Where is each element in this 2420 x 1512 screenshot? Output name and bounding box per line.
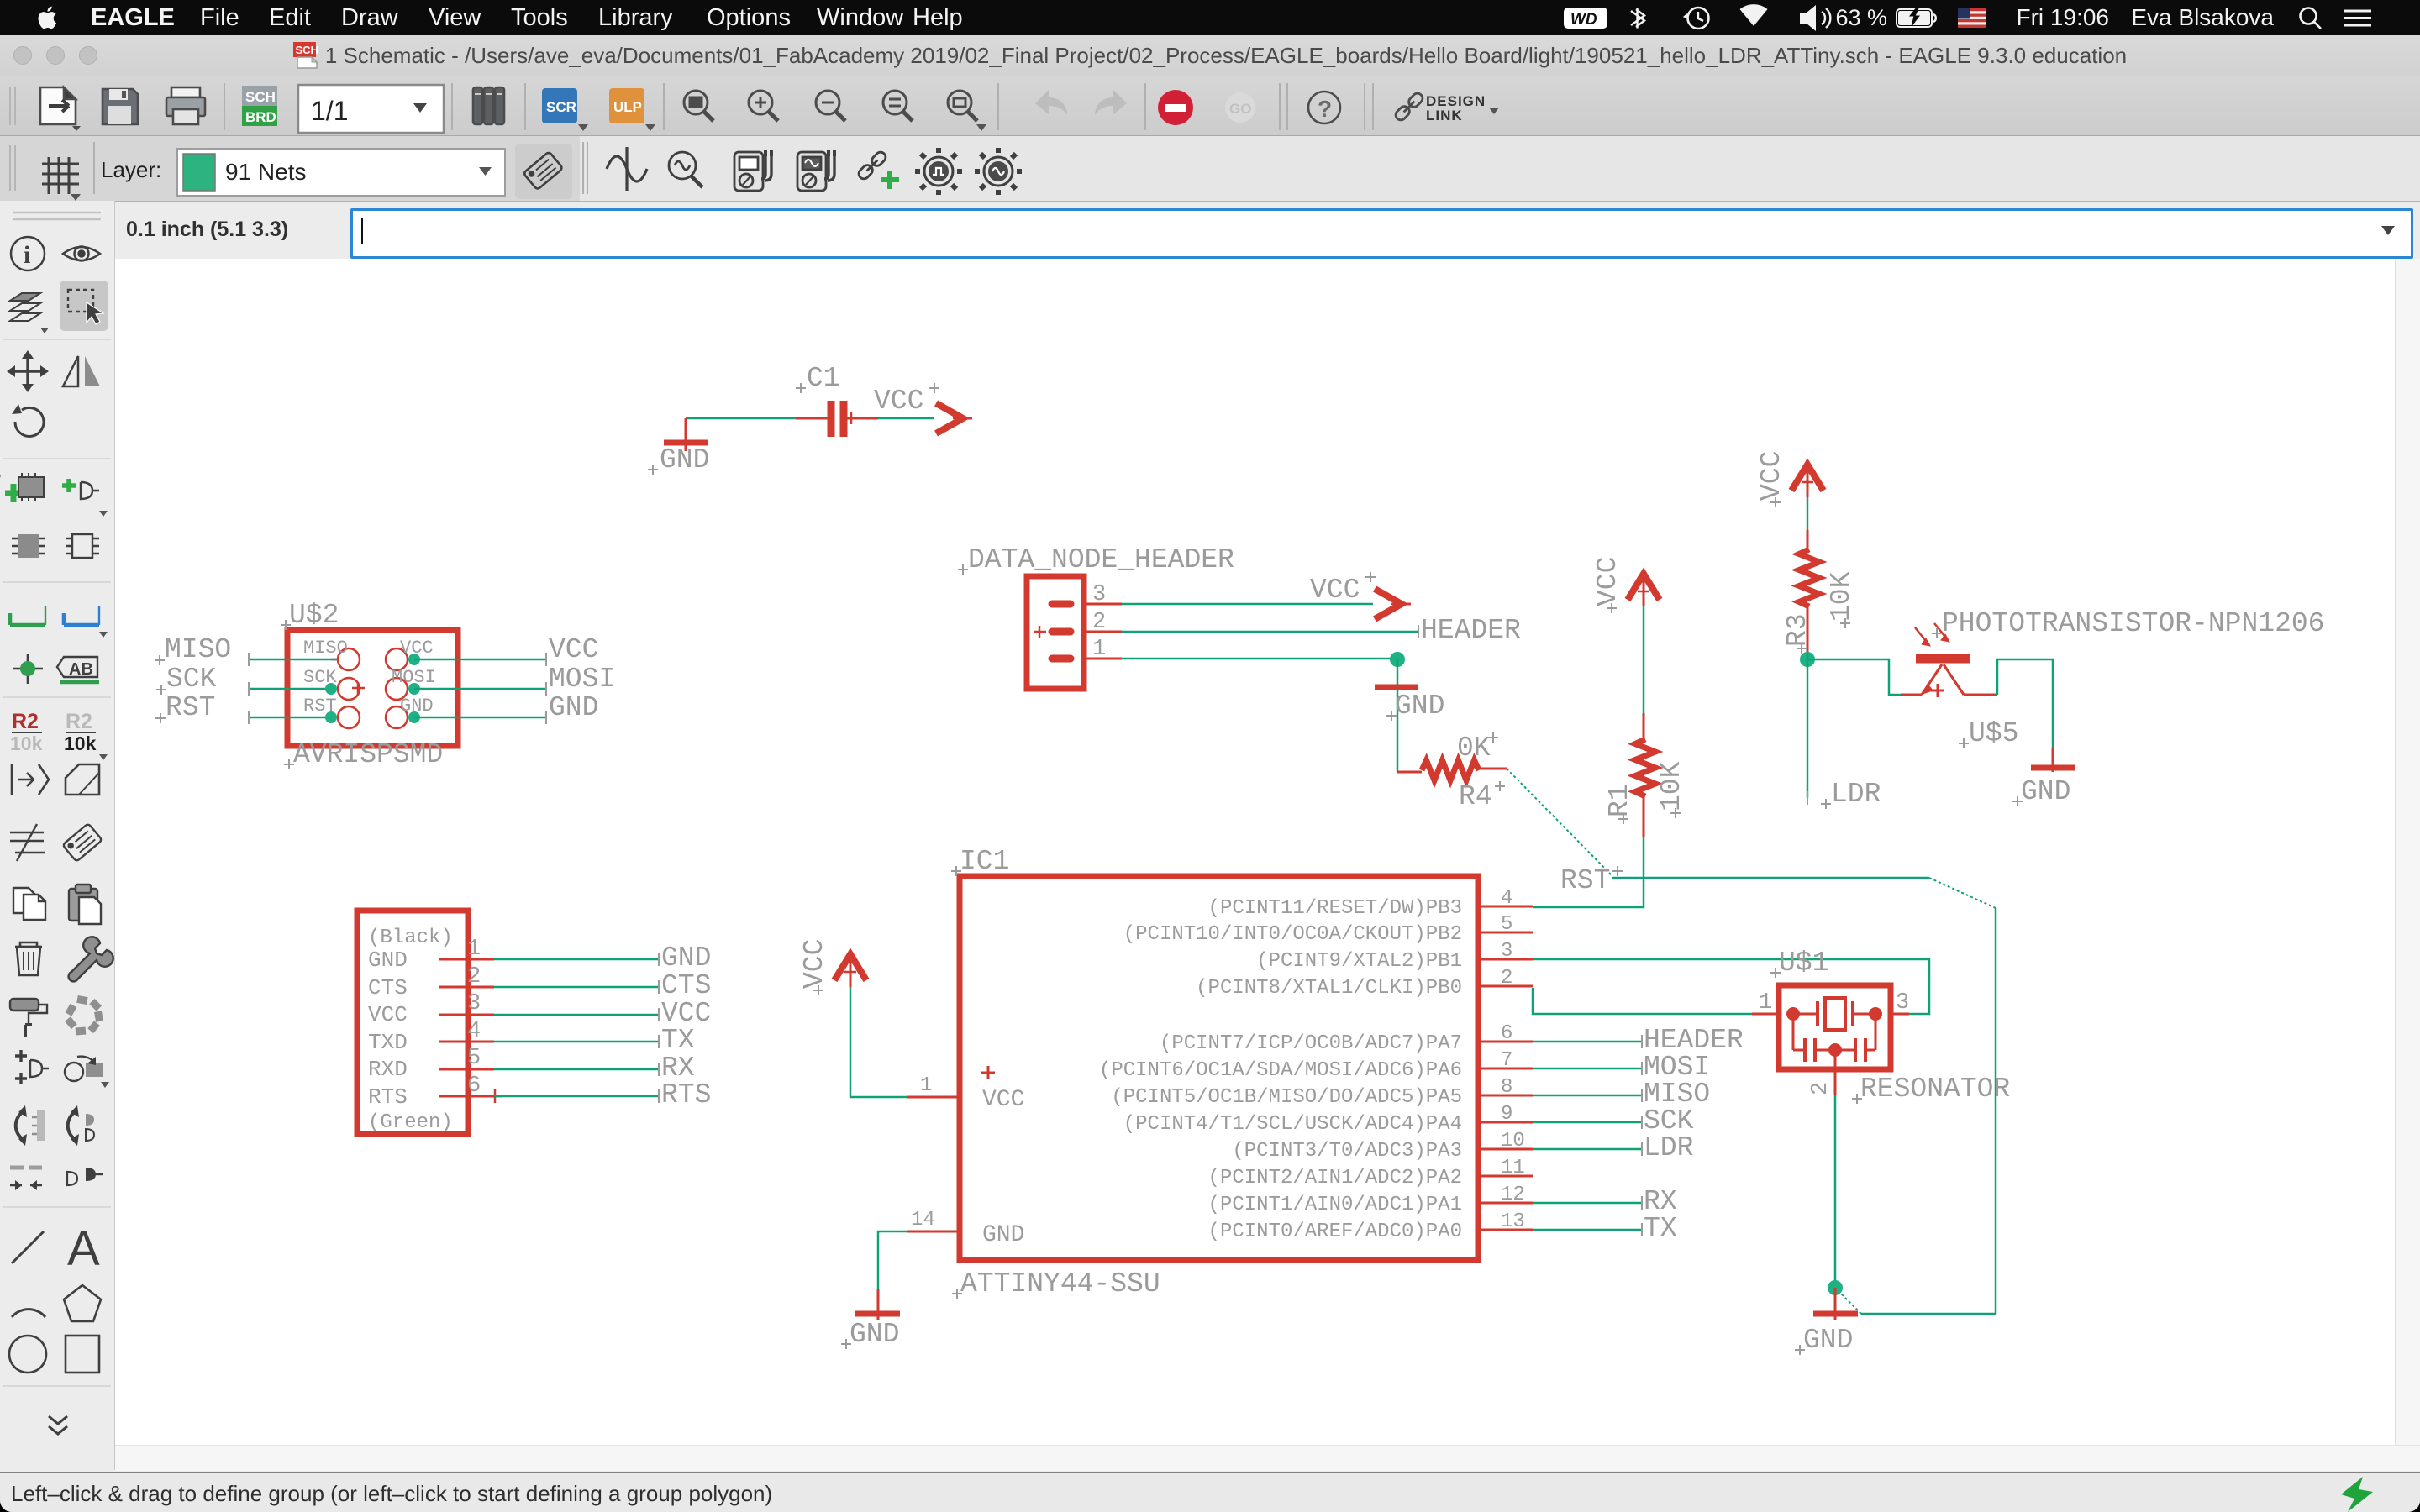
pinswap part tool <box>12 534 45 558</box>
wire pin12 RX <box>1533 1196 1642 1210</box>
svg-text:Layer:: Layer: <box>101 157 161 182</box>
svg-text:(PCINT2/AIN1/ADC2)PA2: (PCINT2/AIN1/ADC2)PA2 <box>1208 1167 1462 1189</box>
ground symbol (U$5) <box>2031 748 2075 772</box>
svg-text:AVRISPSMD: AVRISPSMD <box>293 739 443 770</box>
svg-text:0K: 0K <box>1457 732 1491 764</box>
phototransistor U$5 <box>1901 623 1997 697</box>
label VCC (U$2 right) <box>549 634 598 665</box>
svg-text:GND: GND <box>1803 1325 1853 1356</box>
mirror tool <box>63 356 100 386</box>
SCR button <box>542 88 588 131</box>
svg-text:C1: C1 <box>807 363 840 394</box>
label VCC (R3) <box>1756 451 1787 507</box>
label MISO (IC1) <box>1644 1079 1710 1110</box>
wire FTDI TX <box>494 1035 659 1048</box>
wire IC1 pin14 to GND <box>878 1231 907 1289</box>
resonator pin numbers <box>1759 990 1909 1095</box>
label GND (C1) <box>648 444 709 475</box>
junction dot R3 <box>1800 652 1815 667</box>
zoom in <box>749 91 778 121</box>
wire bottom horizontal <box>1861 1313 1996 1315</box>
svg-text:(PCINT10/INT0/OC0A/CKOUT)PB2: (PCINT10/INT0/OC0A/CKOUT)PB2 <box>1123 923 1462 946</box>
wire U$2 MOSI right <box>414 682 546 696</box>
info tool <box>11 237 45 270</box>
label R1 <box>1604 784 1635 824</box>
svg-text:BRD: BRD <box>245 109 276 125</box>
svg-text:A: A <box>67 1221 100 1276</box>
zoom redraw <box>948 91 986 131</box>
FTDI pin numbers <box>467 937 481 1099</box>
change tool <box>65 1057 109 1088</box>
ULP button <box>609 88 655 131</box>
wire pin8 MISO <box>1533 1089 1642 1102</box>
svg-text:GND: GND <box>368 948 408 973</box>
IC1 ATTINY44 box <box>960 876 1478 1260</box>
gear chip tool <box>915 148 962 195</box>
wire pin10 LDR <box>1533 1142 1642 1156</box>
paste tool <box>69 885 101 924</box>
label R4 <box>1459 781 1505 812</box>
svg-text:7: 7 <box>1501 1049 1512 1072</box>
label SCK (IC1) <box>1644 1105 1694 1137</box>
wire SCK to U$2 <box>249 682 331 696</box>
capacitor C1 <box>796 401 878 437</box>
label RESONATOR <box>1852 1074 2010 1105</box>
label CTS (FTDI) <box>661 970 711 1001</box>
toolbar chevron <box>49 1416 67 1434</box>
wire junction down through GND <box>1397 659 1399 772</box>
zoom fit <box>684 91 713 121</box>
svg-text:R4: R4 <box>1459 781 1492 812</box>
new/open icon <box>40 87 81 131</box>
svg-text:14: 14 <box>911 1209 935 1231</box>
svg-text:10K: 10K <box>1826 571 1857 622</box>
resistor R4 <box>1397 760 1507 780</box>
wire pin2 to resonator pin1 <box>1533 988 1752 1014</box>
svg-text:IC1: IC1 <box>960 846 1009 877</box>
svg-text:MISO: MISO <box>303 638 348 659</box>
SCH/BRD icon <box>242 86 277 126</box>
svg-text:ULP: ULP <box>613 99 642 115</box>
svg-text:3: 3 <box>467 991 481 1016</box>
label RST (left) <box>155 692 215 723</box>
wire R3 junction to phototransistor <box>1807 659 1901 695</box>
undo arrow <box>1035 90 1067 115</box>
junction dots U$2 <box>325 654 420 723</box>
macOS menu bar <box>0 0 2420 35</box>
label MOSI (IC1) <box>1644 1052 1710 1083</box>
add gate tool <box>62 479 108 517</box>
name tool <box>10 710 43 754</box>
go button <box>1225 92 1255 123</box>
svg-text:DATA_NODE_HEADER: DATA_NODE_HEADER <box>968 544 1234 575</box>
label ATTINY44-SSU <box>952 1268 1160 1299</box>
smash tool <box>12 764 49 795</box>
power VCC arrow (R1) <box>1628 574 1660 606</box>
FTDI internal labels <box>368 927 453 1134</box>
svg-text:SCK: SCK <box>166 664 217 695</box>
resonator U$1 box <box>1779 985 1891 1069</box>
label tool <box>57 657 99 682</box>
svg-text:6: 6 <box>1501 1022 1512 1045</box>
oscilloscope tool <box>797 150 836 191</box>
FTDI pin stubs <box>439 959 502 1103</box>
svg-text:63 %: 63 % <box>1835 5 1887 30</box>
wire pin6 HEADER <box>1533 1035 1642 1048</box>
svg-text:i: i <box>24 241 30 269</box>
label C1 <box>796 363 840 394</box>
sine tool <box>607 147 647 191</box>
power VCC arrow (R3) <box>1791 465 1823 497</box>
svg-text:10: 10 <box>1501 1130 1525 1152</box>
copy tool <box>13 888 45 920</box>
svg-text:(PCINT9/XTAL2)PB1: (PCINT9/XTAL2)PB1 <box>1256 950 1462 973</box>
split tool <box>10 824 45 861</box>
svg-text:11: 11 <box>1501 1157 1525 1179</box>
svg-text:1/1: 1/1 <box>311 96 348 126</box>
svg-text:(PCINT0/AREF/ADC0)PA0: (PCINT0/AREF/ADC0)PA0 <box>1208 1221 1462 1243</box>
voltmeter tool <box>734 150 773 191</box>
wire pin1 to junction <box>1122 658 1397 660</box>
power VCC arrow (DATA_NODE) <box>1375 589 1411 619</box>
label GND (IC1) <box>841 1319 899 1350</box>
svg-text:1: 1 <box>1759 990 1772 1016</box>
wire C1 to VCC arrow <box>878 417 934 420</box>
svg-text:AB: AB <box>69 660 93 679</box>
svg-text:(PCINT8/XTAL1/CLKI)PB0: (PCINT8/XTAL1/CLKI)PB0 <box>1196 977 1462 1000</box>
svg-text:RXD: RXD <box>368 1057 408 1082</box>
replace part tool <box>66 534 99 558</box>
svg-text:10k: 10k <box>64 732 97 754</box>
svg-text:RTS: RTS <box>661 1079 711 1110</box>
label 0K <box>1457 732 1498 764</box>
svg-text:U$2: U$2 <box>289 600 339 631</box>
wire FTDI RX <box>494 1063 659 1076</box>
wire pin13 TX <box>1533 1223 1642 1236</box>
svg-text:R2: R2 <box>12 710 39 733</box>
wire long vertical right <box>1995 908 1997 1314</box>
grid icon <box>42 157 81 201</box>
wire pin4 RST net <box>1612 877 1929 879</box>
label HEADER (DATA_NODE) <box>1421 615 1521 646</box>
label RX (FTDI) <box>661 1053 695 1084</box>
svg-text:VCC: VCC <box>368 1002 408 1027</box>
label GND (FTDI) <box>661 942 711 974</box>
svg-text:TX: TX <box>1644 1213 1677 1244</box>
svg-text:Eva Blsakova: Eva Blsakova <box>2131 4 2274 30</box>
label R3 <box>1782 613 1813 654</box>
svg-text:PHOTOTRANSISTOR-NPN1206: PHOTOTRANSISTOR-NPN1206 <box>1942 608 2324 639</box>
zoom out <box>816 91 845 121</box>
label GND (U$5) <box>2012 776 2070 807</box>
label DATA_NODE_HEADER <box>958 544 1234 575</box>
redo arrow <box>1095 90 1127 115</box>
svg-text:R2: R2 <box>66 710 92 733</box>
wire GND to C1 <box>686 417 796 420</box>
circle tool <box>9 1336 46 1373</box>
label TX (FTDI) <box>661 1025 695 1056</box>
wire phototransistor to GND <box>1997 659 2053 748</box>
wire pin9 SCK <box>1533 1116 1642 1129</box>
gateswap tool <box>68 1105 94 1146</box>
IC1 right pin stubs <box>1478 906 1533 1230</box>
value tool <box>64 710 108 760</box>
pinswap tool <box>16 1105 45 1146</box>
label LDR <box>1821 779 1881 810</box>
wire RST to U$2 <box>249 711 331 724</box>
svg-text:2: 2 <box>1808 1082 1833 1095</box>
svg-text:VCC: VCC <box>1756 451 1787 501</box>
wire pin2 HEADER <box>1122 625 1418 638</box>
svg-text:CTS: CTS <box>368 975 408 1000</box>
stop button <box>1158 90 1193 125</box>
connector DATA_NODE_HEADER box <box>1027 576 1084 689</box>
svg-text:(PCINT4/T1/SCL/USCK/ADC4)PA4: (PCINT4/T1/SCL/USCK/ADC4)PA4 <box>1123 1113 1462 1136</box>
wire pin7 MOSI <box>1533 1062 1642 1075</box>
wire pin3 to VCC <box>1122 603 1373 606</box>
label MOSI (U$2 right) <box>549 664 615 695</box>
connector U$2 AVRISPSMD box <box>287 630 458 746</box>
svg-text:5: 5 <box>467 1046 481 1071</box>
svg-text:WD: WD <box>1570 11 1597 29</box>
svg-text:RST: RST <box>166 692 215 723</box>
invoke tool <box>67 1168 103 1185</box>
wire VCC to R3 <box>1807 497 1809 549</box>
help button <box>1308 92 1340 123</box>
svg-text:GND: GND <box>850 1319 899 1350</box>
svg-text:(PCINT7/ICP/OC0B/ADC7)PA7: (PCINT7/ICP/OC0B/ADC7)PA7 <box>1160 1032 1462 1055</box>
zoom select <box>883 91 913 121</box>
line draw tool <box>12 1231 44 1263</box>
wire R4 diagonal to RST <box>1507 769 1612 876</box>
junction tool <box>13 654 43 684</box>
svg-text:(PCINT5/OC1B/MISO/DO/ADC5)PA5: (PCINT5/OC1B/MISO/DO/ADC5)PA5 <box>1111 1086 1462 1109</box>
save icon <box>103 89 138 124</box>
label RST <box>1560 865 1623 896</box>
svg-text:3: 3 <box>1896 990 1909 1016</box>
svg-text:8: 8 <box>1501 1076 1512 1099</box>
svg-text:R3: R3 <box>1782 613 1813 647</box>
label AVRISPSMD <box>284 739 443 770</box>
power VCC arrow (right) <box>936 403 972 433</box>
junction dot pin1 <box>1390 652 1405 667</box>
svg-text:GND: GND <box>661 942 711 974</box>
svg-text:TX: TX <box>661 1025 695 1056</box>
ground symbol (IC1) <box>855 1289 900 1320</box>
wire FTDI CTS <box>494 980 659 994</box>
svg-text:?: ? <box>1318 96 1332 122</box>
svg-text:LDR: LDR <box>1831 779 1881 810</box>
wire R3 junction to LDR end <box>1807 653 1809 805</box>
wire VCC to R1 <box>1643 606 1645 713</box>
wire FTDI GND <box>494 953 659 966</box>
svg-text:GND: GND <box>1395 690 1444 722</box>
svg-text:U$5: U$5 <box>1969 718 2018 749</box>
wire resonator pin2 down <box>1834 1095 1837 1288</box>
split wire tool <box>10 1168 42 1190</box>
svg-text:(PCINT6/OC1A/SDA/MOSI/ADC6)PA6: (PCINT6/OC1A/SDA/MOSI/ADC6)PA6 <box>1099 1059 1462 1082</box>
svg-text:U$1: U$1 <box>1779 948 1828 979</box>
print icon <box>166 87 205 124</box>
ground symbol at C1 <box>664 418 708 451</box>
svg-text:GND: GND <box>2021 776 2070 807</box>
probe tool <box>669 152 702 187</box>
wire U$2 VCC right <box>414 653 546 666</box>
svg-text:VCC: VCC <box>874 386 923 417</box>
svg-text:9: 9 <box>1501 1103 1512 1126</box>
wire FTDI VCC <box>494 1008 659 1021</box>
design link <box>1394 92 1499 123</box>
svg-text:VCC: VCC <box>1592 557 1623 606</box>
label GND (resonator) <box>1795 1325 1853 1356</box>
label U$5 <box>1959 718 2018 749</box>
svg-text:HEADER: HEADER <box>1421 615 1521 646</box>
wire R1 down to pin4 <box>1533 837 1644 907</box>
svg-text:R1: R1 <box>1604 784 1635 817</box>
wire pin3 to resonator <box>1533 959 1929 1014</box>
svg-text:LINK: LINK <box>1426 108 1463 123</box>
svg-text:(PCINT3/T0/ADC3)PA3: (PCINT3/T0/ADC3)PA3 <box>1232 1140 1462 1163</box>
svg-text:(Black): (Black) <box>368 927 453 949</box>
label U$2 <box>281 600 339 631</box>
svg-text:LDR: LDR <box>1644 1132 1693 1163</box>
group dots tool <box>65 995 103 1035</box>
arc tool <box>12 1310 45 1317</box>
wire U$2 GND right <box>414 711 546 724</box>
svg-text:GO: GO <box>1229 101 1251 117</box>
svg-text:5: 5 <box>1501 913 1512 936</box>
label IC1 <box>951 846 1009 877</box>
svg-text:4: 4 <box>1501 887 1512 910</box>
text tool <box>67 1221 100 1276</box>
svg-text:(PCINT11/RESET/DW)PB3: (PCINT11/RESET/DW)PB3 <box>1208 897 1462 920</box>
svg-text:Fri 19:06: Fri 19:06 <box>2017 4 2110 30</box>
svg-text:13: 13 <box>1501 1210 1525 1233</box>
label RTS (FTDI) <box>661 1079 711 1110</box>
svg-text:12: 12 <box>1501 1184 1525 1206</box>
label HEADER (IC1) <box>1644 1025 1744 1056</box>
change gate tool <box>15 1050 49 1084</box>
design link add tool <box>857 150 899 189</box>
IC1 left pin stubs <box>907 1097 960 1231</box>
U$2 pin pads <box>331 648 414 728</box>
svg-text:VCC: VCC <box>982 1087 1024 1113</box>
group/select tool (active) <box>60 281 108 331</box>
svg-text:CTS: CTS <box>661 970 711 1001</box>
svg-text:MOSI: MOSI <box>549 664 615 695</box>
svg-text:3: 3 <box>1501 940 1512 963</box>
polygon tool <box>64 1285 101 1321</box>
svg-text:1: 1 <box>920 1074 932 1097</box>
label PHOTOTRANSISTOR-NPN1206 <box>1932 608 2324 639</box>
attribute tag tool <box>62 823 102 862</box>
label VCC (FTDI) <box>661 998 711 1029</box>
svg-text:VCC: VCC <box>549 634 598 665</box>
display layers tool <box>10 293 49 333</box>
U$2 internal pin names <box>303 638 436 717</box>
library books icon <box>473 87 504 124</box>
wire VCC to IC1 pin1 <box>850 987 907 1097</box>
svg-text:SCR: SCR <box>546 99 576 115</box>
wire RST diagonal right <box>1929 878 1996 908</box>
label RX (IC1) <box>1644 1186 1677 1217</box>
gear sine tool <box>975 148 1022 195</box>
miter tool <box>66 764 99 795</box>
label VCC (C1) <box>874 383 939 417</box>
label VCC (DATA_NODE) <box>1310 572 1376 606</box>
power VCC arrow (IC1) <box>834 954 866 987</box>
svg-text:SCH: SCH <box>295 44 318 56</box>
svg-text:RTS: RTS <box>368 1084 408 1110</box>
svg-text:ATTINY44-SSU: ATTINY44-SSU <box>960 1268 1160 1299</box>
add part tool <box>0 473 44 502</box>
resonator pin dots <box>1786 1007 1882 1057</box>
svg-text:10K: 10K <box>1656 761 1687 811</box>
wire diagonal to resonator GND junction <box>1835 1288 1861 1314</box>
IC1 pin function labels <box>1099 897 1462 1243</box>
svg-text:RST: RST <box>1560 865 1610 896</box>
svg-text:(PCINT1/AIN0/ADC1)PA1: (PCINT1/AIN0/ADC1)PA1 <box>1208 1194 1462 1216</box>
label SCK (left) <box>156 664 217 695</box>
resonator pin leads <box>1752 1014 1909 1095</box>
line tool <box>64 606 108 638</box>
IC1 left pin numbers <box>911 1074 935 1231</box>
label 10K (R1) <box>1656 761 1687 818</box>
wire MISO to U$2 <box>249 653 338 666</box>
svg-text:91 Nets: 91 Nets <box>225 159 307 185</box>
layer combo <box>177 149 505 196</box>
svg-text:GND: GND <box>982 1222 1024 1248</box>
wrench tool <box>69 937 113 981</box>
svg-text:GND: GND <box>660 444 709 475</box>
IC1 internal VCC/GND and + <box>981 1066 1024 1248</box>
svg-text:(Green): (Green) <box>368 1111 453 1134</box>
svg-text:10k: 10k <box>10 732 43 754</box>
connector FTDI box <box>357 911 468 1134</box>
rect tool <box>66 1336 99 1373</box>
svg-text:SCH: SCH <box>245 89 276 105</box>
label 10K (R3) <box>1826 571 1857 628</box>
label U$1 <box>1770 948 1828 979</box>
junction dot resonator GND <box>1828 1280 1843 1295</box>
label GND (DATA_NODE) <box>1386 690 1444 722</box>
resistor R1 <box>1635 713 1655 837</box>
ground symbol (DATA_NODE) <box>1375 685 1418 690</box>
svg-text:MISO: MISO <box>165 634 231 665</box>
label LDR (IC1) <box>1644 1132 1693 1163</box>
label VCC (R1) <box>1592 557 1623 613</box>
show tool (eye) <box>63 247 100 261</box>
svg-text:RESONATOR: RESONATOR <box>1860 1074 2010 1105</box>
delete tool <box>15 942 42 975</box>
paint roller tool <box>10 999 47 1037</box>
svg-text:2: 2 <box>1501 967 1512 990</box>
tag tool button (active) <box>515 144 572 199</box>
svg-text:VCC: VCC <box>1310 575 1360 606</box>
rotate tool <box>12 404 44 436</box>
label MISO (left) <box>155 634 231 665</box>
label TX (IC1) <box>1644 1213 1677 1244</box>
ground symbol (resonator) <box>1813 1288 1858 1320</box>
wire FTDI RTS <box>494 1089 659 1103</box>
move tool <box>7 350 49 392</box>
resistor R3 <box>1799 530 1819 653</box>
label VCC (IC1) <box>799 939 830 995</box>
net tool <box>10 606 45 625</box>
label GND (U$2 right) <box>549 692 598 723</box>
IC1 right pin numbers <box>1501 887 1525 1233</box>
svg-text:VCC: VCC <box>799 939 830 989</box>
